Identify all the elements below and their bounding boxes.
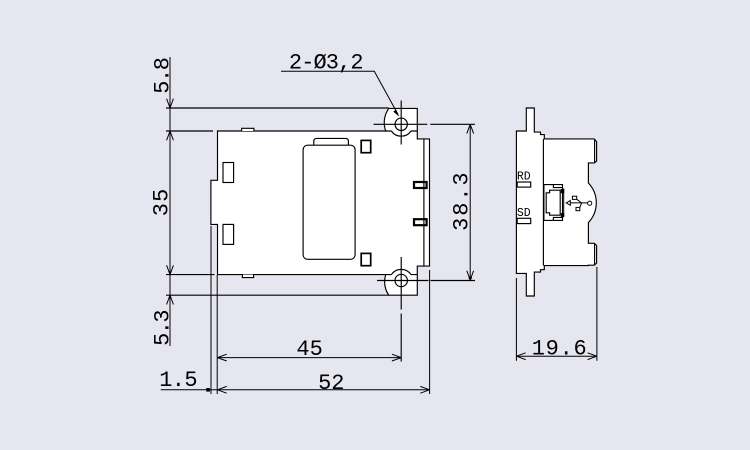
top edge bump <box>242 128 254 131</box>
tab face line top <box>594 139 596 162</box>
left inner tab upper <box>223 163 234 183</box>
extension line x217.2 <box>216 275 218 394</box>
SD LED window <box>517 218 531 223</box>
arrow right 19.6 <box>588 353 597 360</box>
svg-text:RD: RD <box>517 171 531 184</box>
rib inner line right side <box>423 139 425 266</box>
right edge tab upper <box>414 182 427 188</box>
dimension 19.6 <box>516 267 597 361</box>
bottom edge bump <box>242 275 253 278</box>
svg-text:38.3: 38.3 <box>450 172 475 231</box>
leader 2-phi3,2 <box>281 71 398 114</box>
left inner tab lower <box>223 224 234 244</box>
arrow up at 38.3 top <box>467 124 474 133</box>
svg-text:1.5: 1.5 <box>159 368 197 393</box>
dimension 52 / 1.5 line <box>161 389 430 391</box>
arrow left 52 <box>217 386 226 393</box>
svg-text:5.3: 5.3 <box>150 309 175 346</box>
body bottom edge segments under bottom ear <box>386 274 418 276</box>
USB connector inner <box>546 190 560 215</box>
inner cover rounded rect <box>303 145 355 259</box>
svg-text:5.8: 5.8 <box>151 57 176 94</box>
svg-text:2-Ø3,2: 2-Ø3,2 <box>289 51 364 76</box>
mounting hole bottom <box>395 274 407 286</box>
tab face line bottom <box>594 244 596 266</box>
svg-text:45: 45 <box>296 337 322 362</box>
arrow down at 38.3 bottom with dot <box>467 271 474 280</box>
cover top bump <box>314 138 349 145</box>
mounting hole top <box>395 118 407 130</box>
extension line body bottom <box>166 274 215 276</box>
centerline top hole horizontal <box>374 123 476 125</box>
right edge tab lower <box>414 219 427 225</box>
small square bottom <box>361 253 371 265</box>
front view body silhouette <box>211 108 430 295</box>
extension line ear top / 5.8 <box>166 107 389 109</box>
arrow up at y131 <box>167 131 174 140</box>
side view silhouette <box>516 108 596 296</box>
svg-text:52: 52 <box>318 371 344 396</box>
arrow down at y108 <box>167 99 174 108</box>
arrow left 19.6 <box>516 353 525 360</box>
bottom lobe arc of mounting ear <box>391 269 411 274</box>
arrow right 52 <box>420 386 429 393</box>
centerline bottom hole vertical + extension to 45 dim <box>400 257 402 362</box>
arrow down at y274.6 <box>167 265 174 274</box>
RD LED window <box>517 182 531 187</box>
top lobe arc of mounting ear <box>391 131 411 136</box>
arrow right 45 <box>392 354 401 361</box>
extension line body top <box>166 130 213 132</box>
svg-text:SD: SD <box>517 207 531 220</box>
dimension 45 line <box>217 357 401 359</box>
centerline bottom hole horizontal <box>377 280 475 282</box>
1.5 dot arrow <box>206 388 210 392</box>
arrow up at y295.2 <box>167 295 174 304</box>
centerline top hole vertical <box>400 101 402 145</box>
dimension 38.3 line <box>469 124 471 280</box>
svg-text:19.6: 19.6 <box>532 337 587 362</box>
USB trident symbol <box>566 196 592 211</box>
arrow left 45 <box>217 354 226 361</box>
small square top <box>361 140 371 152</box>
extension line ear bottom / 5.3 <box>166 294 389 296</box>
body top edge segments under top ear <box>386 130 418 132</box>
USB connector steps <box>553 185 562 221</box>
svg-text:35: 35 <box>150 189 175 217</box>
USB connector right bar <box>561 189 564 193</box>
side panel division line <box>542 139 544 266</box>
USB connector outer <box>544 185 563 221</box>
extension line x429.6 <box>429 270 431 394</box>
dimension: left vertical dimension line <box>169 57 171 346</box>
extension line x211 <box>210 226 212 394</box>
